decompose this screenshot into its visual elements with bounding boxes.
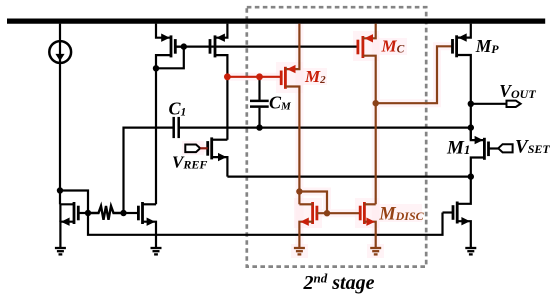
node MD1 gate (red dot)	[324, 210, 330, 216]
transistor PMOS MP	[453, 24, 471, 141]
VDD rail	[7, 18, 545, 23]
wire MC drain to MP gate	[376, 46, 453, 103]
svg-text:VSET: VSET	[515, 137, 550, 158]
wire G2 to NMOS MB2 gate	[124, 212, 139, 214]
node tail (dot)	[468, 173, 474, 179]
node M3 gate (dot)	[181, 43, 187, 49]
transistor NMOS MB2	[138, 202, 156, 248]
transistor NMOS MDISC (red)	[360, 202, 376, 248]
node M3 drain (dot)	[153, 65, 159, 71]
svg-text:CM: CM	[269, 93, 292, 113]
wire VREF to gate	[200, 147, 208, 149]
transistor PMOS M3 (diode-connected, mirrored)	[156, 24, 184, 69]
wire bias line bottom	[88, 213, 443, 235]
node 1st stage out (red dot)	[224, 73, 231, 80]
node CM bottom (dot)	[256, 124, 262, 130]
VREF input pin	[185, 145, 200, 153]
svg-text:VREF: VREF	[172, 153, 207, 172]
wire red gate line (1st stage out to M2 gate)	[227, 76, 281, 78]
ground	[465, 248, 476, 254]
node MD1 drain (red dot)	[296, 188, 302, 194]
wire feedback vertical	[124, 128, 174, 213]
ground	[55, 248, 66, 254]
ground (red)	[370, 248, 381, 254]
VSET input pin	[498, 144, 512, 152]
wire MB2 drain to PMOS M3 drain	[155, 68, 157, 204]
wire bias to gate	[60, 191, 88, 214]
wire VOUT	[471, 103, 507, 105]
svg-text:MP: MP	[475, 36, 500, 56]
ground (red)	[294, 248, 305, 254]
VOUT output pin	[507, 101, 521, 107]
capacitor CM	[250, 77, 269, 128]
node line B right end (dot)	[468, 124, 474, 130]
current source IB	[49, 24, 71, 205]
wire MD1 diode link	[299, 192, 327, 214]
wire diode link	[156, 47, 184, 69]
svg-text:C1: C1	[169, 98, 187, 118]
svg-text:2nd stage: 2nd stage	[303, 270, 375, 294]
resistor RB	[88, 206, 124, 220]
node G1 (dot)	[85, 210, 91, 216]
svg-text:M1: M1	[446, 138, 470, 159]
capacitor C1	[174, 117, 179, 138]
node MC drain (dot)	[373, 100, 379, 106]
transistor PMOS MC	[358, 24, 376, 205]
transistor PMOS M4	[210, 24, 227, 140]
transistor NMOS MB1 (diode-connected, mirrored)	[60, 202, 88, 248]
2nd stage dashed box	[247, 7, 426, 266]
ground	[151, 248, 162, 254]
svg-text:VOUT: VOUT	[499, 81, 536, 101]
wire tail line	[227, 176, 470, 178]
node VOUT (dot)	[468, 101, 474, 107]
transistor NMOS M5 (VREF input)	[208, 137, 228, 176]
wire line B (C1 to VOUT node)	[179, 126, 471, 128]
transistor NMOS MD1 (red, diode-connected, mirrored)	[299, 202, 360, 248]
node G2 (dot)	[120, 210, 126, 216]
node bias (dot)	[57, 187, 63, 193]
node CM top (red dot)	[256, 73, 263, 80]
transistor PMOS M2	[281, 24, 299, 205]
transistor NMOS M1 (mirrored)	[471, 128, 499, 177]
wire gate line to MC	[175, 45, 358, 47]
transistor NMOS MN5	[443, 177, 471, 248]
